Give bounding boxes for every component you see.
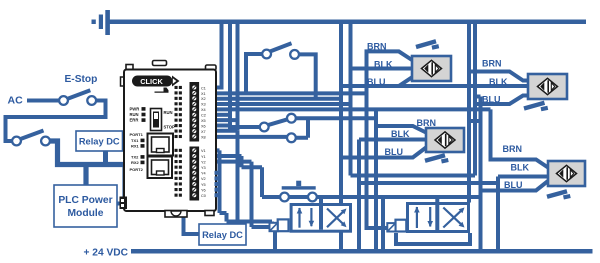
svg-text:PORT2: PORT2 — [130, 167, 144, 172]
svg-text:X7: X7 — [201, 130, 206, 134]
svg-text:BLU: BLU — [482, 95, 501, 105]
svg-text:Relay DC: Relay DC — [79, 137, 120, 147]
svg-text:X1: X1 — [201, 92, 206, 96]
svg-text:RX1: RX1 — [131, 144, 140, 149]
svg-text:X6: X6 — [201, 124, 206, 128]
svg-text:E-Stop: E-Stop — [65, 74, 98, 85]
svg-text:Y3: Y3 — [201, 166, 206, 170]
svg-text:BLK: BLK — [489, 77, 508, 87]
svg-text:AC: AC — [8, 95, 24, 107]
svg-text:BRN: BRN — [417, 118, 437, 128]
svg-text:Y4: Y4 — [201, 172, 206, 176]
svg-text:PORT1: PORT1 — [130, 132, 144, 137]
svg-text:Y2: Y2 — [201, 160, 206, 164]
svg-text:C0: C0 — [201, 194, 206, 198]
svg-text:Module: Module — [67, 208, 103, 219]
svg-text:CLICK: CLICK — [140, 77, 163, 86]
svg-text:Y5: Y5 — [201, 183, 206, 187]
svg-text:X8: X8 — [201, 135, 206, 139]
svg-text:Y6: Y6 — [201, 188, 206, 192]
svg-text:BLK: BLK — [391, 129, 410, 139]
svg-text:Y1: Y1 — [201, 155, 206, 159]
svg-text:BLK: BLK — [511, 163, 530, 173]
svg-text:+ 24 VDC: + 24 VDC — [84, 248, 129, 259]
svg-text:X3: X3 — [201, 103, 206, 107]
svg-text:X4: X4 — [201, 108, 206, 112]
svg-text:RUN: RUN — [130, 112, 139, 117]
svg-text:PLC Power: PLC Power — [58, 195, 112, 206]
svg-text:BLU: BLU — [367, 77, 386, 87]
svg-text:PWR: PWR — [130, 107, 140, 112]
svg-text:BLU: BLU — [504, 180, 523, 190]
svg-text:ERR: ERR — [130, 118, 139, 123]
svg-text:BRN: BRN — [367, 41, 387, 51]
svg-text:BLK: BLK — [374, 60, 393, 70]
svg-text:V1: V1 — [201, 149, 206, 153]
svg-text:TX2: TX2 — [131, 155, 139, 160]
svg-text:Relay DC: Relay DC — [202, 230, 243, 240]
svg-text:STOP: STOP — [164, 125, 176, 130]
svg-text:X2: X2 — [201, 97, 206, 101]
svg-text:C1: C1 — [201, 86, 206, 90]
svg-text:BRN: BRN — [503, 144, 523, 154]
svg-text:C2: C2 — [201, 114, 206, 118]
svg-text:X5: X5 — [201, 119, 206, 123]
svg-text:RUN: RUN — [164, 110, 173, 115]
svg-text:V2: V2 — [201, 177, 206, 181]
svg-text:RX2: RX2 — [131, 160, 140, 165]
svg-text:TX1: TX1 — [131, 138, 139, 143]
svg-text:BRN: BRN — [482, 59, 502, 69]
svg-text:BLU: BLU — [385, 147, 404, 157]
